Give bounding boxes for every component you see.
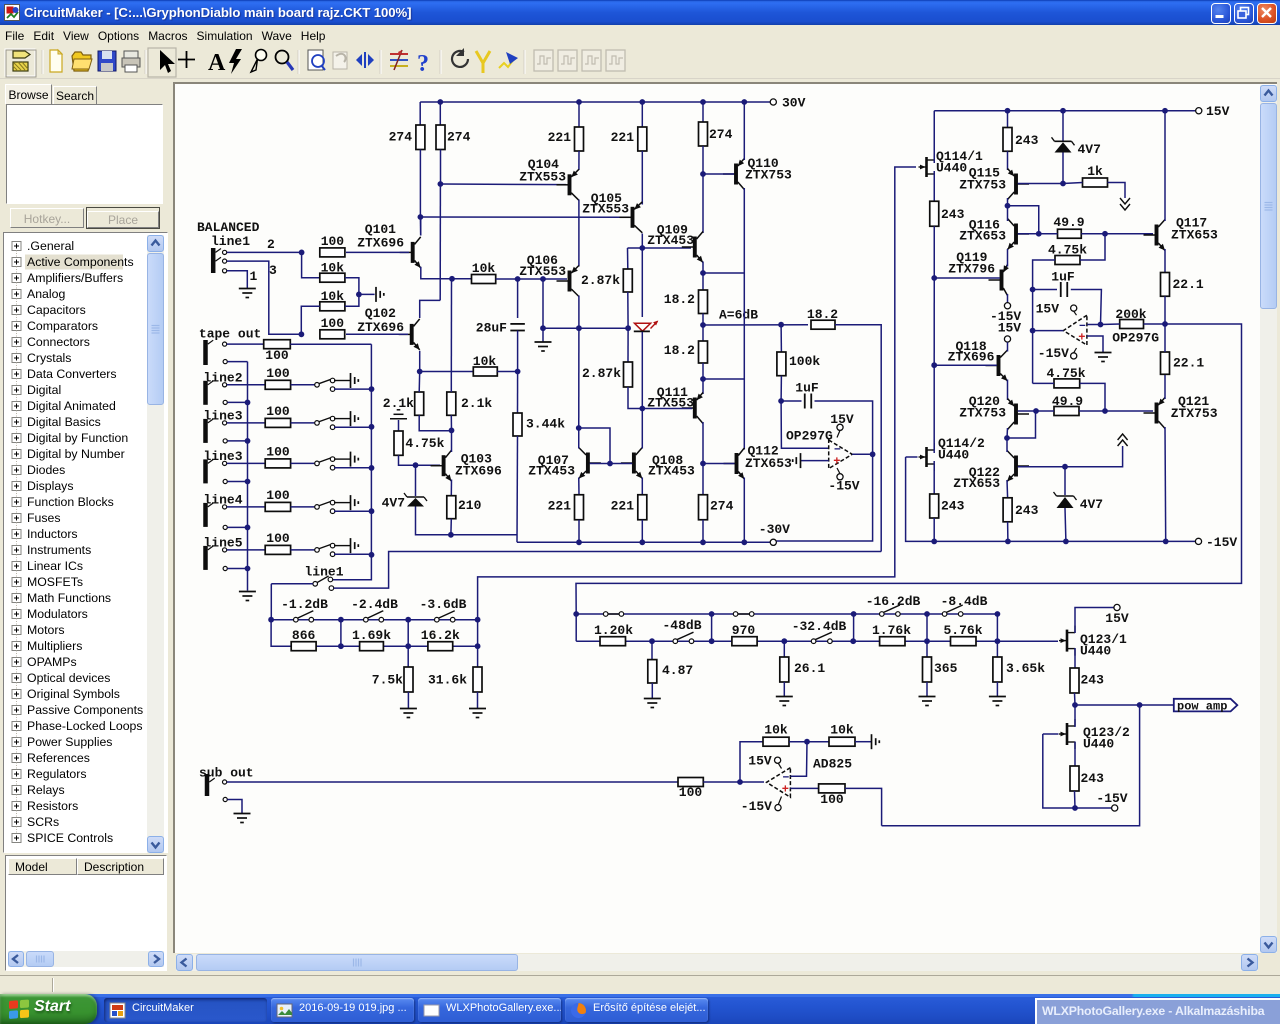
svg-text:243: 243 [941, 207, 965, 222]
svg-text:221: 221 [548, 499, 572, 514]
svg-text:Passive Components: Passive Components [27, 703, 143, 717]
svg-text:Regulators: Regulators [27, 767, 86, 781]
svg-text:1: 1 [250, 269, 258, 284]
svg-text:Q102: Q102 [365, 306, 396, 321]
svg-text:866: 866 [292, 628, 316, 643]
svg-text:1.69k: 1.69k [352, 628, 391, 643]
svg-text:A: A [208, 50, 226, 76]
svg-text:1.20k: 1.20k [594, 623, 633, 638]
svg-text:221: 221 [611, 499, 635, 514]
svg-text:4V7: 4V7 [382, 496, 405, 511]
svg-text:References: References [27, 751, 90, 765]
svg-text:Comparators: Comparators [27, 319, 98, 333]
svg-text:Fuses: Fuses [27, 511, 61, 525]
svg-text:ZTX453: ZTX453 [528, 464, 575, 479]
svg-text:.General: .General [27, 239, 74, 253]
svg-text:4V7: 4V7 [1078, 142, 1101, 157]
svg-text:15V: 15V [830, 412, 854, 427]
svg-text:31.6k: 31.6k [428, 673, 467, 688]
svg-text:Linear ICs: Linear ICs [27, 559, 83, 573]
svg-text:49.9: 49.9 [1053, 215, 1084, 230]
svg-text:2.87k: 2.87k [581, 273, 620, 288]
svg-text:18.2: 18.2 [664, 343, 695, 358]
svg-text:OPAMPs: OPAMPs [27, 655, 77, 669]
svg-text:AD825: AD825 [813, 757, 852, 772]
svg-text:BALANCED: BALANCED [197, 220, 260, 235]
svg-text:ZTX453: ZTX453 [648, 464, 695, 479]
svg-text:ZTX753: ZTX753 [1171, 406, 1218, 421]
svg-text:Amplifiers/Buffers: Amplifiers/Buffers [27, 271, 123, 285]
svg-text:243: 243 [1081, 771, 1105, 786]
svg-text:15V: 15V [1105, 611, 1129, 626]
svg-text:2.1k: 2.1k [461, 396, 492, 411]
svg-text:2.87k: 2.87k [582, 366, 621, 381]
svg-text:100: 100 [266, 404, 290, 419]
svg-text:Function Blocks: Function Blocks [27, 495, 114, 509]
svg-text:Resistors: Resistors [27, 799, 78, 813]
svg-text:1uF: 1uF [795, 381, 819, 396]
svg-text:100: 100 [266, 444, 290, 459]
svg-text:-3.6dB: -3.6dB [420, 597, 467, 612]
svg-text:100: 100 [266, 488, 290, 503]
svg-text:Instruments: Instruments [27, 543, 91, 557]
svg-text:274: 274 [709, 127, 733, 142]
svg-text:2: 2 [267, 237, 275, 252]
svg-text:30V: 30V [782, 96, 806, 111]
svg-text:28uF: 28uF [476, 321, 507, 336]
svg-text:ZTX453: ZTX453 [647, 233, 694, 248]
svg-text:Digital Basics: Digital Basics [27, 415, 101, 429]
svg-text:3.65k: 3.65k [1006, 661, 1045, 676]
svg-text:221: 221 [611, 130, 635, 145]
svg-text:SCRs: SCRs [27, 815, 59, 829]
svg-text:line1: line1 [304, 565, 343, 580]
svg-text:4.75k: 4.75k [405, 436, 444, 451]
svg-text:243: 243 [1015, 133, 1039, 148]
svg-text:5.76k: 5.76k [943, 623, 982, 638]
svg-text:Inductors: Inductors [27, 527, 78, 541]
svg-text:SPICE Controls: SPICE Controls [27, 831, 113, 845]
svg-text:-2.4dB: -2.4dB [351, 597, 398, 612]
svg-text:2.1k: 2.1k [383, 396, 414, 411]
svg-text:Original Symbols: Original Symbols [27, 687, 120, 701]
svg-text:243: 243 [1081, 673, 1105, 688]
svg-text:18.2: 18.2 [664, 292, 695, 307]
svg-text:15V: 15V [748, 754, 772, 769]
svg-text:4.75k: 4.75k [1048, 243, 1087, 258]
svg-text:200k: 200k [1115, 307, 1146, 322]
svg-text:Analog: Analog [27, 287, 65, 301]
svg-text:26.1: 26.1 [794, 661, 825, 676]
svg-text:10k: 10k [830, 723, 854, 738]
svg-text:Digital by Number: Digital by Number [27, 447, 125, 461]
svg-text:-48dB: -48dB [662, 618, 701, 633]
svg-text:-15V: -15V [828, 478, 859, 493]
svg-text:MOSFETs: MOSFETs [27, 575, 83, 589]
svg-text:A=6dB: A=6dB [719, 307, 758, 322]
svg-text:-16.2dB: -16.2dB [866, 594, 921, 609]
svg-text:ZTX796: ZTX796 [948, 262, 995, 277]
svg-text:ZTX653: ZTX653 [953, 476, 1000, 491]
svg-text:tape out: tape out [199, 327, 261, 342]
svg-text:?: ? [417, 51, 429, 77]
svg-text:7.5k: 7.5k [372, 673, 403, 688]
svg-text:274: 274 [389, 130, 413, 145]
svg-text:4.87: 4.87 [662, 663, 693, 678]
svg-text:Diodes: Diodes [27, 463, 65, 477]
svg-text:10k: 10k [764, 723, 788, 738]
svg-text:Motors: Motors [27, 623, 65, 637]
svg-text:16.2k: 16.2k [421, 628, 460, 643]
svg-text:49.9: 49.9 [1052, 394, 1083, 409]
svg-text:ZTX696: ZTX696 [455, 464, 502, 479]
svg-text:-15V: -15V [1096, 791, 1127, 806]
svg-text:Digital Animated: Digital Animated [27, 399, 116, 413]
svg-text:22.1: 22.1 [1173, 277, 1204, 292]
svg-text:274: 274 [710, 499, 734, 514]
svg-text:-15V: -15V [1038, 346, 1069, 361]
svg-text:ZTX553: ZTX553 [519, 170, 566, 185]
svg-text:Displays: Displays [27, 479, 73, 493]
svg-text:-30V: -30V [759, 522, 790, 537]
svg-text:Power Supplies: Power Supplies [27, 735, 112, 749]
svg-text:-15V: -15V [1206, 535, 1237, 550]
svg-text:Data Converters: Data Converters [27, 367, 117, 381]
svg-text:ZTX696: ZTX696 [948, 350, 995, 365]
svg-text:Phase-Locked Loops: Phase-Locked Loops [27, 719, 143, 733]
svg-text:100: 100 [820, 792, 844, 807]
svg-text:ZTX653: ZTX653 [959, 229, 1006, 244]
svg-text:-15V: -15V [741, 799, 772, 814]
svg-text:10k: 10k [472, 261, 496, 276]
svg-text:10k: 10k [473, 354, 497, 369]
svg-text:243: 243 [941, 499, 965, 514]
svg-text:1k: 1k [1087, 164, 1103, 179]
svg-text:100: 100 [321, 234, 345, 249]
svg-text:10k: 10k [321, 261, 345, 276]
svg-text:ZTX753: ZTX753 [959, 406, 1006, 421]
svg-text:22.1: 22.1 [1173, 356, 1204, 371]
svg-text:U440: U440 [936, 161, 967, 176]
svg-text:+: + [782, 783, 789, 797]
svg-text:U440: U440 [1083, 737, 1114, 752]
svg-text:ZTX653: ZTX653 [745, 456, 792, 471]
svg-text:365: 365 [934, 661, 958, 676]
svg-text:Relays: Relays [27, 783, 65, 797]
svg-text:15V: 15V [1036, 302, 1060, 317]
svg-text:15V: 15V [998, 321, 1022, 336]
svg-text:ZTX553: ZTX553 [582, 202, 629, 217]
svg-text:-8.4dB: -8.4dB [941, 594, 988, 609]
svg-text:U440: U440 [938, 448, 969, 463]
svg-text:970: 970 [732, 623, 756, 638]
svg-text:100: 100 [265, 348, 289, 363]
svg-text:-32.4dB: -32.4dB [792, 619, 847, 634]
svg-text:100k: 100k [789, 354, 820, 369]
svg-text:Crystals: Crystals [27, 351, 71, 365]
svg-text:100: 100 [266, 366, 290, 381]
svg-text:line1: line1 [211, 234, 250, 249]
svg-text:4.75k: 4.75k [1046, 366, 1085, 381]
svg-text:100: 100 [321, 316, 345, 331]
svg-text:Capacitors: Capacitors [27, 303, 86, 317]
svg-text:U440: U440 [1080, 644, 1111, 659]
svg-text:210: 210 [458, 498, 482, 513]
svg-text:15V: 15V [1206, 104, 1230, 119]
svg-text:10k: 10k [321, 289, 345, 304]
svg-text:Digital by Function: Digital by Function [27, 431, 128, 445]
svg-text:Math Functions: Math Functions [27, 591, 111, 605]
svg-text:100: 100 [679, 785, 703, 800]
svg-text:1uF: 1uF [1051, 269, 1075, 284]
svg-text:Active Components: Active Components [27, 255, 134, 269]
svg-text:3: 3 [269, 263, 277, 278]
svg-text:OP297G: OP297G [786, 428, 833, 443]
svg-text:274: 274 [447, 130, 471, 145]
svg-text:ZTX653: ZTX653 [1171, 228, 1218, 243]
svg-text:221: 221 [548, 130, 572, 145]
svg-text:18.2: 18.2 [807, 307, 838, 322]
svg-text:pow amp: pow amp [1177, 699, 1227, 713]
svg-text:1.76k: 1.76k [872, 623, 911, 638]
svg-text:Modulators: Modulators [27, 607, 88, 621]
svg-text:+: + [1078, 330, 1085, 344]
svg-text:ZTX696: ZTX696 [357, 320, 404, 335]
svg-text:Optical devices: Optical devices [27, 671, 110, 685]
svg-text:ZTX753: ZTX753 [745, 168, 792, 183]
svg-text:4V7: 4V7 [1080, 497, 1103, 512]
svg-text:ZTX753: ZTX753 [959, 178, 1006, 193]
svg-text:ZTX696: ZTX696 [357, 236, 404, 251]
svg-text:OP297G: OP297G [1112, 331, 1159, 346]
svg-text:3.44k: 3.44k [526, 417, 565, 432]
svg-text:Connectors: Connectors [27, 335, 90, 349]
svg-text:Multipliers: Multipliers [27, 639, 82, 653]
svg-text:100: 100 [266, 531, 290, 546]
svg-text:243: 243 [1015, 503, 1039, 518]
svg-text:Digital: Digital [27, 383, 61, 397]
svg-text:-1.2dB: -1.2dB [281, 597, 328, 612]
svg-text:+: + [833, 455, 840, 469]
